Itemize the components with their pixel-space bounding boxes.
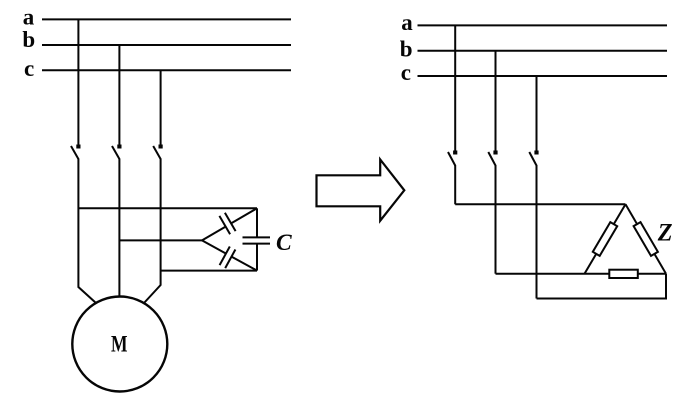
- wire capacitor bank right side: [256, 208, 258, 237]
- switch S5 contact dot: [493, 151, 497, 155]
- wire rail phase c under delta: [537, 274, 667, 299]
- wire bus c right: [418, 75, 668, 77]
- motor M circle: [72, 297, 167, 392]
- wire rail phase b to delta bottom side: [496, 273, 667, 275]
- wire S3 to motor: [144, 159, 161, 304]
- wire drop from bus a to switch S4: [454, 25, 456, 151]
- impedance Z1 (left leg rectangle): [593, 222, 617, 256]
- impedance Z3 (bottom rectangle): [609, 270, 638, 278]
- svg-text:a: a: [401, 10, 413, 35]
- wire S5 down: [495, 165, 497, 274]
- wire drop from bus c to switch S3: [160, 70, 162, 145]
- switch S4 blade: [448, 152, 455, 166]
- wire S1 to motor: [78, 159, 96, 304]
- capacitor C2 plates (lower diagonal): [220, 247, 230, 266]
- wire drop from bus a to switch S1: [77, 19, 79, 145]
- svg-text:c: c: [401, 60, 411, 85]
- svg-text:b: b: [22, 27, 35, 52]
- svg-text:c: c: [24, 56, 34, 81]
- switch S1 blade: [71, 146, 78, 159]
- wire rail phase b to capacitor bank apex: [119, 239, 202, 241]
- switch S3 contact dot: [159, 145, 163, 149]
- wire delta left leg: [585, 204, 626, 273]
- switch S2 contact dot: [117, 145, 121, 149]
- wire drop from bus b to switch S5: [495, 51, 497, 152]
- switch S5 blade: [488, 152, 495, 166]
- wire bus a left: [42, 18, 291, 20]
- svg-text:M: M: [111, 331, 128, 356]
- wire bus b right: [418, 50, 668, 52]
- svg-text:b: b: [400, 36, 413, 61]
- switch S6 blade: [529, 152, 536, 166]
- wire bus a right: [418, 24, 668, 26]
- wire drop from bus b to switch S2: [118, 45, 120, 146]
- wire S2 to motor: [118, 159, 120, 298]
- switch S3 blade: [153, 146, 160, 159]
- wire S6 down: [536, 165, 538, 299]
- capacitor C1 plates (upper diagonal): [219, 216, 230, 234]
- svg-text:Z: Z: [657, 220, 673, 247]
- switch S6 contact dot: [534, 151, 538, 155]
- wire S4 to impedance delta: [454, 165, 456, 204]
- wire capacitor bank upper diagonal: [202, 227, 225, 241]
- capacitor C3 plates (right side): [243, 236, 271, 238]
- svg-text:C: C: [276, 230, 292, 256]
- wire rail phase a to delta top vertex: [455, 203, 625, 205]
- switch S4 contact dot: [453, 151, 457, 155]
- wire rail phase a to capacitor bank top: [78, 207, 257, 209]
- wire delta right leg: [626, 204, 667, 273]
- wire rail phase c to capacitor bank bottom: [161, 270, 257, 272]
- wire drop from bus c to switch S6: [536, 76, 538, 152]
- wire bus b left: [42, 44, 291, 46]
- switch S2 blade: [112, 146, 119, 159]
- arrow (transform symbol): [317, 160, 405, 221]
- wire capacitor bank lower diagonal: [202, 240, 226, 253]
- impedance Z2 (right leg rectangle): [634, 222, 658, 256]
- wire bus c left: [42, 69, 291, 71]
- svg-text:a: a: [23, 4, 35, 29]
- switch S1 contact dot: [76, 145, 80, 149]
